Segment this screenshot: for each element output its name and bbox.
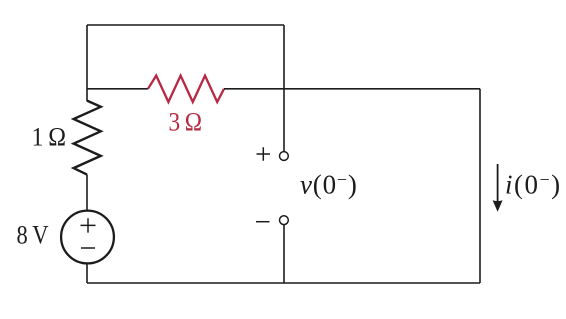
svg-text:1 Ω: 1 Ω (32, 123, 67, 152)
voltage source plus sign (81, 218, 96, 232)
svg-text:i(0−): i(0−) (505, 170, 562, 200)
wire right vertical (479, 89, 481, 283)
wire bottom (87, 282, 480, 284)
voltage source minus sign (81, 247, 95, 249)
wire horizontal right lead (224, 88, 480, 90)
voltage source V1 circle (61, 211, 114, 264)
wire middle vertical lower (283, 225, 285, 283)
current arrow (497, 164, 499, 203)
wire top (87, 24, 284, 26)
terminal plus sign (257, 147, 271, 161)
terminal node plus circle (280, 152, 289, 161)
svg-text:8 V: 8 V (17, 221, 49, 250)
wire horizontal left lead (87, 88, 148, 90)
wire resistor to source (86, 175, 88, 211)
svg-text:3 Ω: 3 Ω (169, 108, 203, 137)
resistor R 3ohm zigzag (148, 76, 224, 102)
wire source to bottom (86, 263, 88, 283)
svg-text:v(0−): v(0−) (300, 170, 358, 200)
terminal node minus circle (280, 216, 289, 225)
wire middle vertical upper (283, 25, 285, 151)
resistor 1ohm zigzag (74, 101, 101, 175)
wire left vertical upper (86, 25, 88, 101)
terminal minus sign (256, 221, 270, 223)
